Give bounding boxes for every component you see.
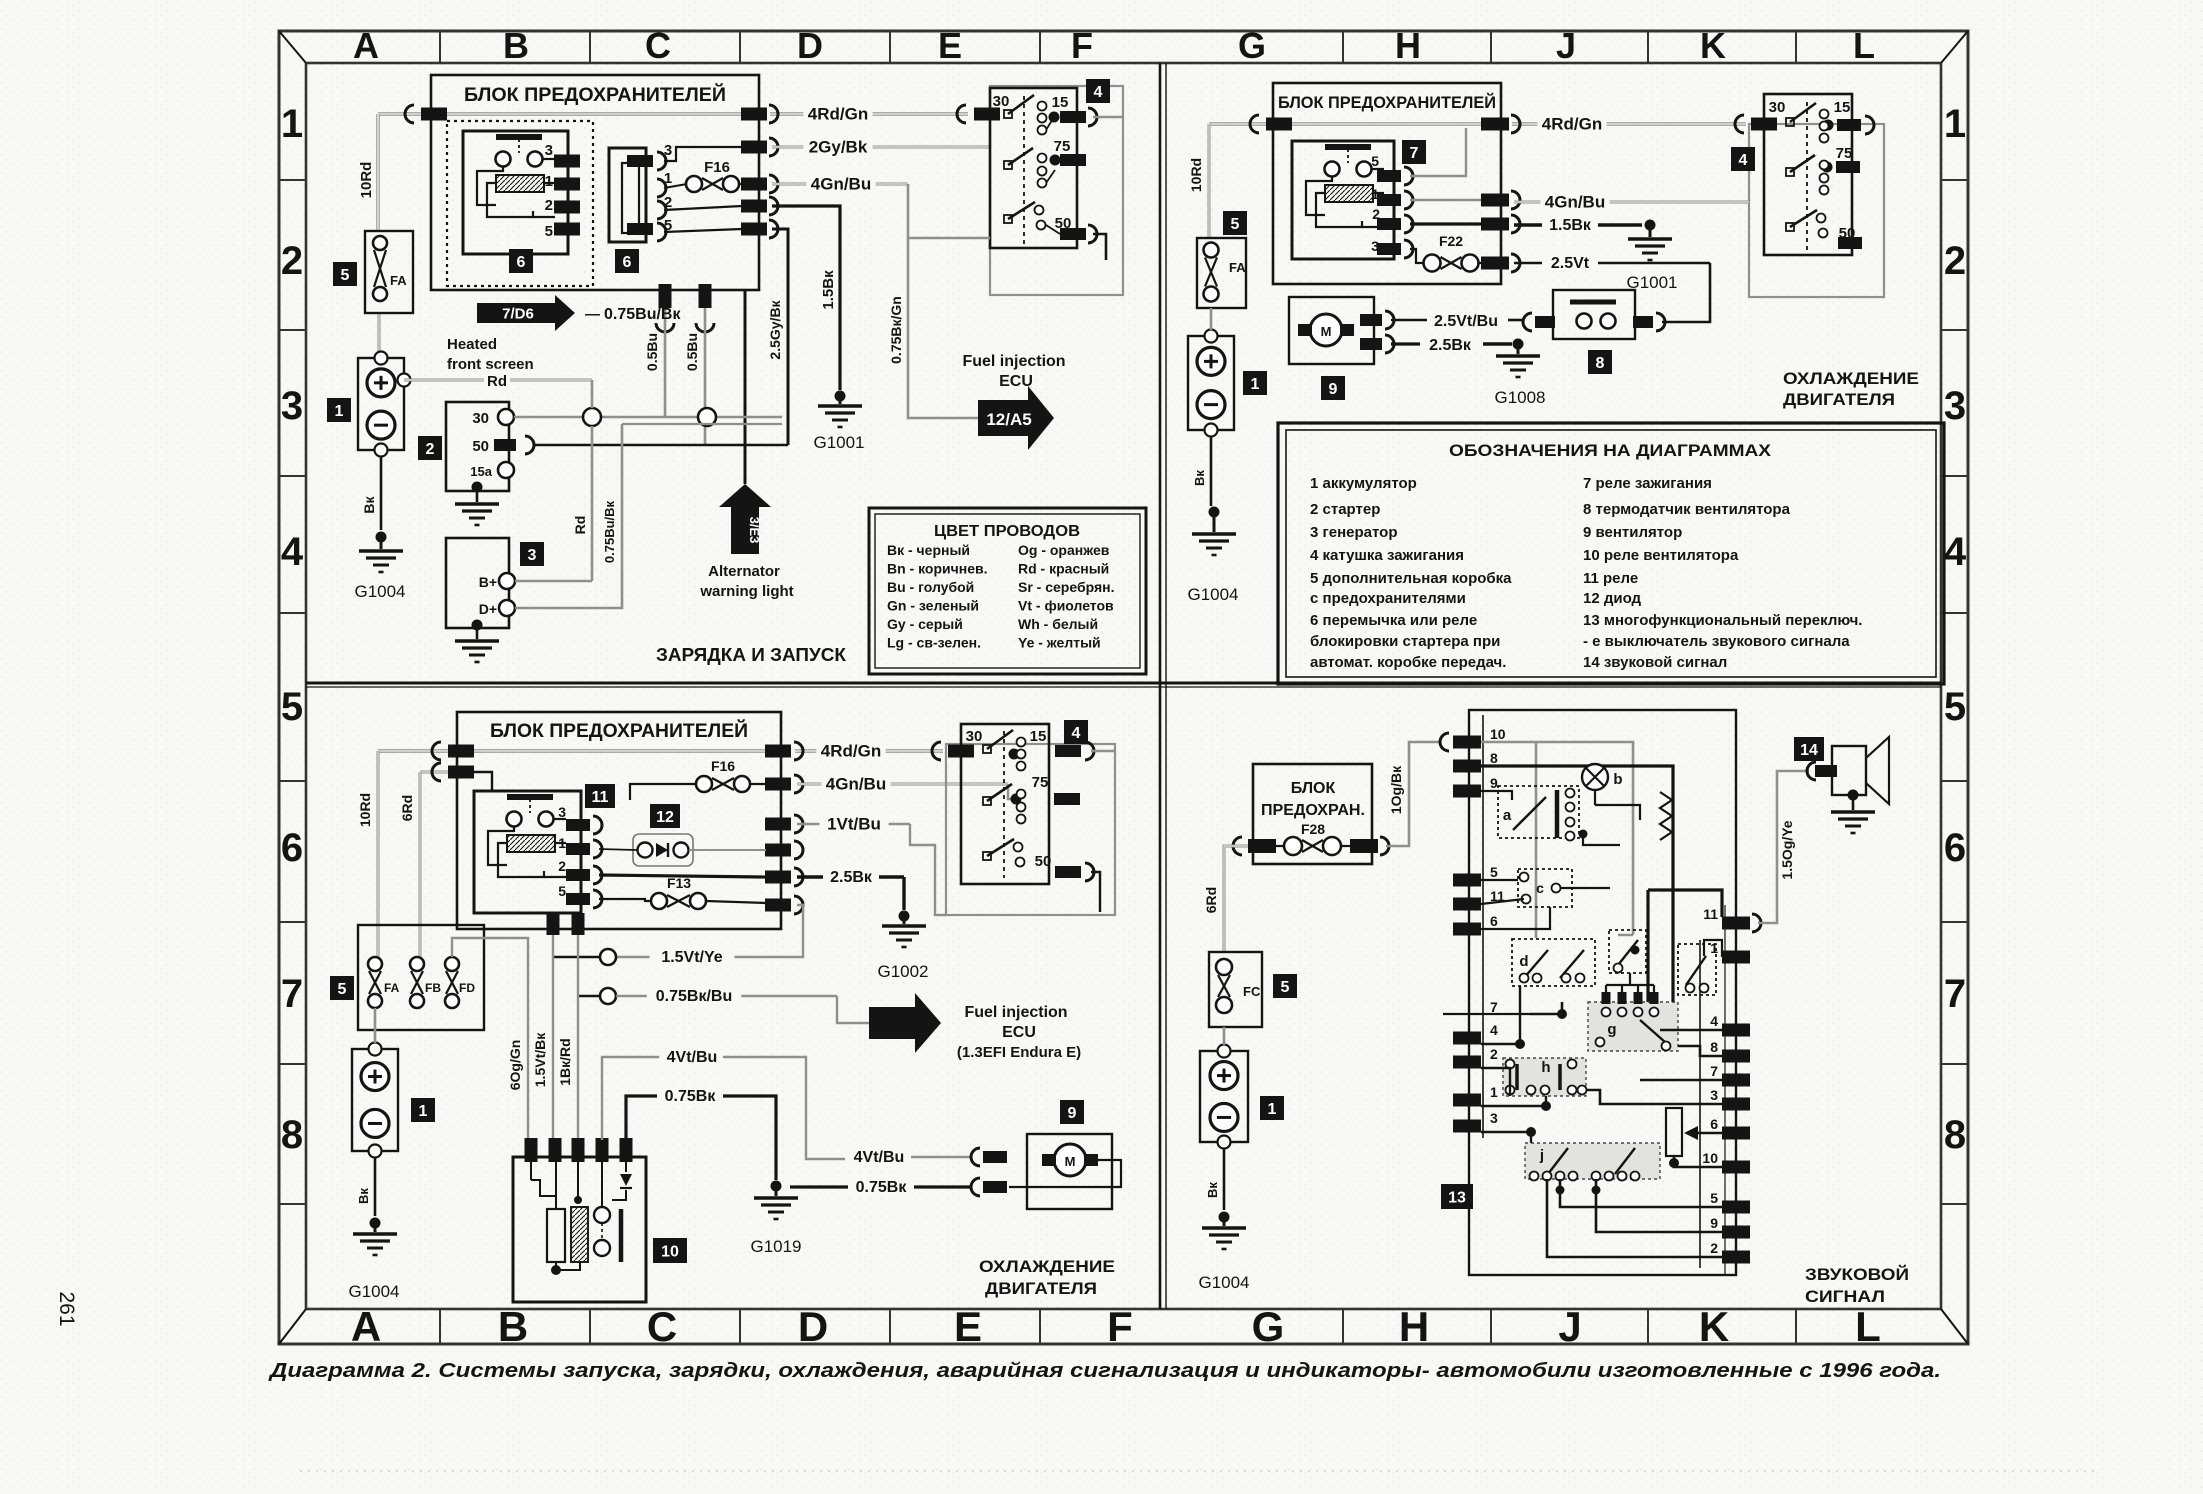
svg-text:9: 9 bbox=[1068, 1105, 1077, 1122]
svg-text:6: 6 bbox=[1944, 826, 1966, 870]
svg-text:9 вентилятор: 9 вентилятор bbox=[1583, 524, 1682, 541]
svg-text:Bк: Bк bbox=[356, 1188, 371, 1204]
svg-text:5: 5 bbox=[1281, 979, 1290, 996]
svg-text:3: 3 bbox=[1944, 384, 1966, 428]
svg-text:Ye - желтый: Ye - желтый bbox=[1018, 635, 1101, 651]
tag 5 TL bbox=[333, 262, 357, 286]
legend box bbox=[1278, 423, 1944, 684]
svg-text:G1004: G1004 bbox=[354, 582, 405, 601]
svg-text:1: 1 bbox=[1268, 1101, 1277, 1118]
svg-text:2.5Bк: 2.5Bк bbox=[1429, 337, 1472, 354]
wire jumper3 to 2Gy/Bk bbox=[664, 147, 742, 161]
svg-text:4Gn/Bu: 4Gn/Bu bbox=[1545, 192, 1605, 211]
svg-text:6: 6 bbox=[281, 826, 303, 870]
svg-text:B+: B+ bbox=[479, 574, 497, 590]
svg-text:6Rd: 6Rd bbox=[1203, 887, 1219, 913]
svg-text:13 многофункциональный переклю: 13 многофункциональный переключ. bbox=[1583, 612, 1862, 629]
tag 11 bbox=[585, 784, 615, 808]
svg-text:F: F bbox=[1071, 25, 1093, 66]
svg-text:12 диод: 12 диод bbox=[1583, 590, 1642, 607]
wire 0.75Bk/Gn down to ECU arrow bbox=[908, 184, 978, 418]
tag 6a bbox=[509, 249, 533, 273]
svg-text:8: 8 bbox=[1944, 1113, 1966, 1157]
svg-text:2: 2 bbox=[545, 197, 553, 214]
svg-text:B: B bbox=[498, 1303, 528, 1350]
svg-text:5 дополнительная коробка: 5 дополнительная коробка bbox=[1310, 570, 1512, 587]
svg-text:4Gn/Bu: 4Gn/Bu bbox=[826, 774, 886, 793]
wire 2.5Bk BL bbox=[797, 875, 904, 878]
relay 11 bbox=[474, 791, 602, 913]
wire 0.75Bk to motor bbox=[790, 1185, 848, 1188]
alternator warning light arrow bbox=[719, 484, 771, 507]
svg-text:1.5Vt/Bк: 1.5Vt/Bк bbox=[532, 1032, 548, 1087]
wire 4Rd/Gn BL bbox=[378, 749, 457, 752]
svg-text:0.5Bu: 0.5Bu bbox=[644, 333, 660, 371]
svg-text:2: 2 bbox=[1710, 1240, 1718, 1256]
svg-text:FB: FB bbox=[425, 981, 441, 995]
svg-text:ЗВУКОВОЙ: ЗВУКОВОЙ bbox=[1805, 1265, 1909, 1284]
wire 4Gn/Bu TR bbox=[1410, 199, 1484, 202]
svg-text:2: 2 bbox=[558, 858, 566, 874]
svg-text:Bn - коричнев.: Bn - коричнев. bbox=[887, 561, 988, 577]
svg-text:4Gn/Bu: 4Gn/Bu bbox=[811, 174, 871, 193]
svg-text:ДВИГАТЕЛЯ: ДВИГАТЕЛЯ bbox=[1783, 390, 1895, 409]
wire 6Rd BR bbox=[1224, 846, 1248, 952]
ground G1001 TL bbox=[835, 391, 846, 402]
grid letters top bbox=[353, 25, 1875, 66]
ground G1004 BL bbox=[370, 1218, 381, 1229]
svg-text:6Rd: 6Rd bbox=[399, 795, 415, 821]
svg-text:Fuel injection: Fuel injection bbox=[964, 1004, 1067, 1021]
wire 4Gn/Bu TL bbox=[741, 178, 767, 191]
svg-text:G1008: G1008 bbox=[1494, 388, 1545, 407]
battery 1 TL bbox=[358, 358, 404, 450]
starter lockout jumper 6b bbox=[609, 142, 672, 242]
wire row5 jumper bbox=[664, 229, 742, 232]
svg-text:75: 75 bbox=[1836, 145, 1853, 162]
wire B+ bbox=[515, 580, 592, 583]
svg-text:Vt - фиолетов: Vt - фиолетов bbox=[1018, 598, 1114, 614]
grid letters bottom bbox=[351, 1303, 1881, 1350]
svg-text:10: 10 bbox=[1490, 726, 1506, 742]
wire 2.5Vt/Bu bbox=[1391, 319, 1427, 322]
svg-text:10Rd: 10Rd bbox=[1188, 158, 1204, 192]
svg-text:8 термодатчик вентилятора: 8 термодатчик вентилятора bbox=[1583, 501, 1791, 518]
diode 12 bbox=[650, 804, 680, 828]
svg-text:11 реле: 11 реле bbox=[1583, 570, 1638, 587]
svg-text:4: 4 bbox=[1490, 1022, 1498, 1038]
wire 4Vt/Bu to motor bbox=[846, 1144, 912, 1165]
svg-text:Wh - белый: Wh - белый bbox=[1018, 616, 1098, 632]
svg-text:1: 1 bbox=[1251, 376, 1260, 393]
ECU arrow BL bbox=[869, 993, 941, 1053]
border frame bbox=[279, 31, 1968, 1344]
right pins box13 bbox=[1702, 906, 1750, 1264]
svg-text:4Vt/Bu: 4Vt/Bu bbox=[667, 1049, 718, 1066]
fuse box bottom pins 0.5Bu bbox=[659, 284, 672, 308]
svg-text:3: 3 bbox=[545, 142, 553, 159]
svg-text:Og - оранжев: Og - оранжев bbox=[1018, 542, 1110, 558]
svg-text:G1004: G1004 bbox=[1198, 1273, 1249, 1292]
svg-text:2: 2 bbox=[426, 441, 435, 458]
ignition switch 4 BL bbox=[932, 724, 1115, 915]
wire Bk BR bbox=[1223, 1148, 1226, 1210]
svg-text:10: 10 bbox=[661, 1243, 679, 1260]
wire Rd vertical bbox=[591, 380, 594, 408]
svg-text:Rd - красный: Rd - красный bbox=[1018, 561, 1109, 577]
legend color box bbox=[869, 508, 1146, 674]
svg-text:F16: F16 bbox=[704, 159, 730, 176]
tag 14 bbox=[1794, 737, 1824, 761]
wire 50 to switch bbox=[1093, 234, 1106, 260]
svg-text:14 звуковой сигнал: 14 звуковой сигнал bbox=[1583, 654, 1727, 671]
wire 2.5Bk TR bbox=[1391, 342, 1420, 345]
svg-text:4: 4 bbox=[1739, 152, 1748, 169]
svg-text:10 реле вентилятора: 10 реле вентилятора bbox=[1583, 547, 1739, 564]
ground G1019 bbox=[771, 1181, 782, 1192]
svg-text:0.75Bк: 0.75Bк bbox=[856, 1179, 908, 1196]
svg-text:b: b bbox=[1613, 771, 1622, 788]
box13 internal wires bbox=[1443, 742, 1722, 1257]
svg-text:4: 4 bbox=[1072, 725, 1081, 742]
fan relay 10 bbox=[513, 1138, 646, 1302]
svg-text:H: H bbox=[1395, 25, 1421, 66]
wire Bk TR bbox=[1210, 436, 1213, 506]
svg-text:1: 1 bbox=[335, 403, 344, 420]
tag 4 TR bbox=[1731, 147, 1755, 171]
svg-text:K: K bbox=[1699, 1303, 1729, 1350]
svg-text:5: 5 bbox=[338, 981, 347, 998]
svg-text:с предохранителями: с предохранителями bbox=[1310, 590, 1466, 607]
fuse box BL right pins bbox=[765, 778, 791, 791]
terminal 0.75Bk/Bu bbox=[600, 988, 616, 1004]
wire 10Rd BL bbox=[377, 751, 380, 957]
tag 4 BL bbox=[1064, 720, 1088, 744]
svg-text:6Og/Gn: 6Og/Gn bbox=[507, 1040, 523, 1091]
svg-text:1.5Vt/Ye: 1.5Vt/Ye bbox=[661, 949, 722, 966]
svg-text:0.75Bк/Gn: 0.75Bк/Gn bbox=[888, 296, 904, 364]
svg-text:75: 75 bbox=[1054, 138, 1071, 155]
svg-text:ПРЕДОХРАН.: ПРЕДОХРАН. bbox=[1261, 802, 1365, 819]
svg-text:3: 3 bbox=[281, 384, 303, 428]
svg-text:Rd: Rd bbox=[572, 516, 588, 535]
wire 6Rd BL bbox=[419, 772, 422, 957]
fuse box TR bbox=[1273, 83, 1501, 284]
wire 2.5Gy/Bk TL bbox=[772, 229, 788, 445]
svg-text:E: E bbox=[938, 25, 962, 66]
svg-text:4Rd/Gn: 4Rd/Gn bbox=[821, 741, 881, 760]
svg-text:5: 5 bbox=[341, 267, 350, 284]
wire 0.75Bk upper bbox=[626, 1096, 657, 1140]
svg-text:6: 6 bbox=[1710, 1116, 1718, 1132]
svg-text:a: a bbox=[1503, 807, 1512, 824]
svg-text:2.5Vt: 2.5Vt bbox=[1551, 255, 1590, 272]
svg-text:Rd: Rd bbox=[487, 373, 507, 390]
starter 2 bbox=[446, 402, 534, 525]
svg-text:Sr - серебрян.: Sr - серебрян. bbox=[1018, 579, 1114, 595]
svg-text:ЦВЕТ ПРОВОДОВ: ЦВЕТ ПРОВОДОВ bbox=[934, 523, 1080, 540]
svg-text:2.5Bк: 2.5Bк bbox=[830, 869, 873, 886]
wire 50 row bbox=[534, 444, 788, 447]
fuse box stub BR bbox=[1253, 764, 1372, 864]
svg-text:ECU: ECU bbox=[1002, 1024, 1036, 1041]
svg-text:30: 30 bbox=[993, 93, 1010, 110]
wire 4Gn/Bu BL bbox=[797, 783, 1008, 786]
fuse F22 bbox=[1410, 249, 1424, 263]
fuse box BL bbox=[457, 712, 781, 929]
svg-text:БЛОК: БЛОК bbox=[1291, 780, 1336, 797]
relay 6 bbox=[463, 131, 580, 254]
svg-text:ОХЛАЖДЕНИЕ: ОХЛАЖДЕНИЕ bbox=[979, 1257, 1115, 1276]
wire 10Rd TR bbox=[1208, 124, 1211, 238]
tag 9 TR bbox=[1321, 376, 1345, 400]
svg-text:G1001: G1001 bbox=[813, 433, 864, 452]
svg-text:9: 9 bbox=[1710, 1215, 1718, 1231]
wire relay7 row5 loop bbox=[1410, 128, 1466, 176]
svg-text:F22: F22 bbox=[1439, 233, 1463, 249]
svg-text:L: L bbox=[1855, 1303, 1881, 1350]
battery 1 BL bbox=[352, 1049, 398, 1151]
thermo switch 8 bbox=[1553, 290, 1665, 339]
svg-text:Gy - серый: Gy - серый bbox=[887, 616, 963, 632]
svg-text:75: 75 bbox=[1032, 774, 1049, 791]
ground G1004 BR bbox=[1219, 1212, 1230, 1223]
wire FD to 6Og/Gn bbox=[452, 938, 528, 1140]
wire 10Rd TL bbox=[376, 114, 379, 231]
svg-text:ОБОЗНАЧЕНИЯ НА ДИАГРАММАХ: ОБОЗНАЧЕНИЯ НА ДИАГРАММАХ bbox=[1449, 441, 1772, 460]
svg-text:F: F bbox=[1107, 1303, 1133, 1350]
svg-text:M: M bbox=[1321, 324, 1332, 339]
fuse FA TL bbox=[365, 231, 413, 313]
multifunction switch 13 box bbox=[1469, 710, 1736, 1275]
svg-text:8: 8 bbox=[1596, 355, 1605, 372]
svg-text:1: 1 bbox=[1710, 940, 1718, 956]
svg-text:ОХЛАЖДЕНИЕ: ОХЛАЖДЕНИЕ bbox=[1783, 369, 1919, 388]
tag 9 BL bbox=[1060, 1100, 1084, 1124]
wire 6Rd entry BL bbox=[420, 771, 457, 774]
svg-text:h: h bbox=[1541, 1059, 1550, 1076]
ignition switch 4 TR bbox=[1735, 94, 1884, 297]
svg-text:5: 5 bbox=[1231, 216, 1240, 233]
svg-text:11: 11 bbox=[592, 789, 609, 806]
svg-text:6: 6 bbox=[1490, 913, 1498, 929]
wire row2 jumper bbox=[664, 206, 742, 210]
svg-text:10: 10 bbox=[1702, 1150, 1718, 1166]
svg-text:4: 4 bbox=[281, 530, 304, 574]
svg-text:30: 30 bbox=[1769, 99, 1786, 116]
quadrant dividers bbox=[306, 63, 1941, 1309]
svg-text:7/D6: 7/D6 bbox=[502, 306, 534, 323]
wire 1.5Og/Ye horn bbox=[1752, 914, 1761, 932]
svg-text:C: C bbox=[645, 25, 671, 66]
svg-text:БЛОК ПРЕДОХРАНИТЕЛЕЙ: БЛОК ПРЕДОХРАНИТЕЛЕЙ bbox=[1278, 93, 1496, 112]
tag 10 bbox=[653, 1238, 687, 1263]
svg-text:G1002: G1002 bbox=[877, 962, 928, 981]
wire 1.5Bk TL bbox=[772, 206, 840, 390]
svg-text:3: 3 bbox=[558, 804, 566, 820]
svg-text:5: 5 bbox=[1371, 153, 1379, 169]
svg-text:4 катушка зажигания: 4 катушка зажигания bbox=[1310, 547, 1464, 564]
tag 4 TL bbox=[1086, 79, 1110, 103]
svg-text:ECU: ECU bbox=[999, 373, 1033, 390]
wire Bk BL bbox=[374, 1157, 377, 1216]
alternator 3 bbox=[446, 538, 515, 662]
fuse box pins row2/row5 TL bbox=[741, 200, 767, 213]
svg-text:4Vt/Bu: 4Vt/Bu bbox=[854, 1149, 905, 1166]
svg-text:1 аккумулятор: 1 аккумулятор bbox=[1310, 475, 1417, 492]
svg-text:5: 5 bbox=[1490, 864, 1498, 880]
svg-text:A: A bbox=[351, 1303, 381, 1350]
svg-text:(1.3EFI Endura E): (1.3EFI Endura E) bbox=[957, 1044, 1081, 1061]
svg-text:D+: D+ bbox=[479, 601, 497, 617]
wire 50 stub BL bbox=[1091, 872, 1100, 912]
svg-text:0.75Bк: 0.75Bк bbox=[665, 1088, 717, 1105]
svg-text:14: 14 bbox=[1800, 742, 1818, 759]
svg-text:4Rd/Gn: 4Rd/Gn bbox=[1542, 114, 1602, 133]
scan artifact line bbox=[300, 1470, 2100, 1472]
svg-text:10Rd: 10Rd bbox=[357, 793, 373, 827]
wire battery to FA bbox=[1210, 308, 1213, 330]
wire 4Rd/Gn TL bbox=[378, 112, 431, 115]
wire 1Og/Bk bbox=[1386, 742, 1441, 846]
terminal 1.5Vt/Ye bbox=[600, 949, 616, 965]
svg-text:30: 30 bbox=[472, 410, 489, 427]
svg-text:C: C bbox=[647, 1303, 677, 1350]
svg-text:G: G bbox=[1252, 1303, 1285, 1350]
svg-text:Fuel injection: Fuel injection bbox=[962, 353, 1065, 370]
fuse FA TR bbox=[1223, 211, 1247, 235]
svg-text:1: 1 bbox=[1490, 1084, 1498, 1100]
tag 13 bbox=[1441, 1184, 1473, 1209]
svg-text:8: 8 bbox=[1490, 750, 1498, 766]
svg-text:D: D bbox=[798, 1303, 828, 1350]
svg-text:7: 7 bbox=[1710, 1063, 1718, 1079]
svg-text:G: G bbox=[1238, 25, 1266, 66]
ignition loop wire BL bbox=[1091, 750, 1115, 752]
svg-text:30: 30 bbox=[966, 728, 983, 745]
tag 1 TL bbox=[327, 398, 351, 422]
svg-text:БЛОК ПРЕДОХРАНИТЕЛЕЙ: БЛОК ПРЕДОХРАНИТЕЛЕЙ bbox=[464, 84, 726, 106]
svg-text:1: 1 bbox=[281, 102, 303, 146]
svg-text:0.75Bu/Bк: 0.75Bu/Bк bbox=[602, 500, 617, 563]
svg-text:- е выключатель звукового сигн: - е выключатель звукового сигнала bbox=[1583, 633, 1850, 650]
svg-text:1.5Og/Ye: 1.5Og/Ye bbox=[1779, 820, 1795, 879]
svg-text:15: 15 bbox=[1052, 94, 1069, 111]
svg-text:K: K bbox=[1700, 25, 1726, 66]
svg-text:2.5Gy/Bк: 2.5Gy/Bк bbox=[767, 299, 783, 359]
svg-text:7: 7 bbox=[1410, 145, 1419, 162]
relay 6 dashed enclosure bbox=[447, 121, 593, 286]
svg-text:j: j bbox=[1539, 1147, 1544, 1164]
fuse FC 5 bbox=[1209, 952, 1262, 1027]
wire F13 to 1.5Vt/Ye bbox=[616, 905, 803, 957]
svg-text:7: 7 bbox=[281, 972, 303, 1016]
svg-text:warning light: warning light bbox=[699, 583, 793, 600]
svg-text:0.5Bu: 0.5Bu bbox=[684, 333, 700, 371]
horn 14 bbox=[1831, 737, 1889, 833]
svg-text:5: 5 bbox=[558, 883, 566, 899]
svg-text:1: 1 bbox=[558, 835, 566, 851]
wire 1.5Bk TR bbox=[1410, 222, 1484, 225]
left pins box13 bbox=[1453, 726, 1506, 1133]
svg-text:FC: FC bbox=[1243, 984, 1261, 999]
ground G1004 TR bbox=[1209, 507, 1220, 518]
svg-text:2 стартер: 2 стартер bbox=[1310, 501, 1380, 518]
svg-text:A: A bbox=[353, 25, 379, 66]
wire 30 row bbox=[514, 416, 782, 419]
wire Rd battery to starter bbox=[404, 379, 592, 382]
svg-text:Heated: Heated bbox=[447, 336, 497, 353]
svg-text:блокировки стартера при: блокировки стартера при bbox=[1310, 633, 1500, 650]
svg-text:Диаграмма 2. Системы запуска,: Диаграмма 2. Системы запуска, зарядки, о… bbox=[268, 1360, 1941, 1382]
svg-text:0.75Bк/Bu: 0.75Bк/Bu bbox=[656, 988, 732, 1005]
svg-text:5: 5 bbox=[1710, 1190, 1718, 1206]
svg-text:8: 8 bbox=[281, 1113, 303, 1157]
svg-text:—: — bbox=[585, 306, 600, 323]
svg-text:Alternator: Alternator bbox=[708, 563, 780, 580]
svg-text:c: c bbox=[1536, 880, 1544, 896]
svg-text:4: 4 bbox=[1944, 530, 1967, 574]
svg-text:10Rd: 10Rd bbox=[358, 162, 375, 199]
svg-text:G1019: G1019 bbox=[750, 1237, 801, 1256]
svg-text:6: 6 bbox=[517, 254, 526, 271]
svg-text:FA: FA bbox=[384, 981, 400, 995]
wire junction horizontals bbox=[622, 423, 782, 425]
wire D+ 0.75Bu/Bk bbox=[515, 424, 622, 608]
wire 4Rd/Gn TR bbox=[1209, 122, 1273, 125]
svg-text:автомат. коробке передач.: автомат. коробке передач. bbox=[1310, 654, 1506, 671]
svg-text:F28: F28 bbox=[1301, 821, 1325, 837]
svg-text:6 перемычка или реле: 6 перемычка или реле bbox=[1310, 612, 1477, 629]
svg-text:13: 13 bbox=[1448, 1189, 1466, 1206]
fan motor 9 TR bbox=[1289, 297, 1394, 364]
svg-text:FA: FA bbox=[390, 273, 407, 288]
svg-text:261: 261 bbox=[55, 1291, 78, 1326]
svg-text:Bк: Bк bbox=[1192, 470, 1207, 486]
svg-text:F16: F16 bbox=[711, 758, 735, 774]
svg-text:9: 9 bbox=[1329, 381, 1338, 398]
svg-text:4Rd/Gn: 4Rd/Gn bbox=[808, 104, 868, 123]
ignition switch 4 TL bbox=[957, 86, 1123, 295]
tag 8 bbox=[1588, 350, 1612, 374]
ignition loop wire TR bbox=[1612, 201, 1749, 204]
svg-text:11: 11 bbox=[1703, 906, 1718, 922]
svg-text:0.75Bu/Bк: 0.75Bu/Bк bbox=[604, 306, 681, 323]
svg-text:15: 15 bbox=[1834, 99, 1851, 116]
svg-text:1.5Bк: 1.5Bк bbox=[1549, 217, 1592, 234]
ground G1008 bbox=[1513, 339, 1524, 350]
svg-text:12/A5: 12/A5 bbox=[986, 410, 1031, 429]
ignition loop wire TL bbox=[1093, 116, 1123, 118]
svg-text:Bк: Bк bbox=[361, 495, 377, 513]
svg-text:1Bк/Rd: 1Bк/Rd bbox=[557, 1038, 573, 1085]
svg-text:15a: 15a bbox=[470, 464, 492, 479]
fuse box TL bbox=[431, 75, 759, 290]
svg-text:3: 3 bbox=[528, 547, 537, 564]
tag 2 bbox=[418, 436, 442, 460]
svg-text:СИГНАЛ: СИГНАЛ bbox=[1805, 1287, 1885, 1306]
svg-text:7: 7 bbox=[1490, 999, 1498, 1015]
ground G1001 TR bbox=[1645, 220, 1656, 231]
ignition relay 7 bbox=[1292, 141, 1413, 259]
svg-text:3: 3 bbox=[1710, 1087, 1718, 1103]
svg-text:9: 9 bbox=[1490, 775, 1498, 791]
svg-text:D: D bbox=[797, 25, 823, 66]
svg-text:L: L bbox=[1853, 25, 1875, 66]
svg-text:7: 7 bbox=[1944, 972, 1966, 1016]
svg-text:4: 4 bbox=[1094, 84, 1103, 101]
svg-text:Gn - зеленый: Gn - зеленый bbox=[887, 598, 979, 614]
